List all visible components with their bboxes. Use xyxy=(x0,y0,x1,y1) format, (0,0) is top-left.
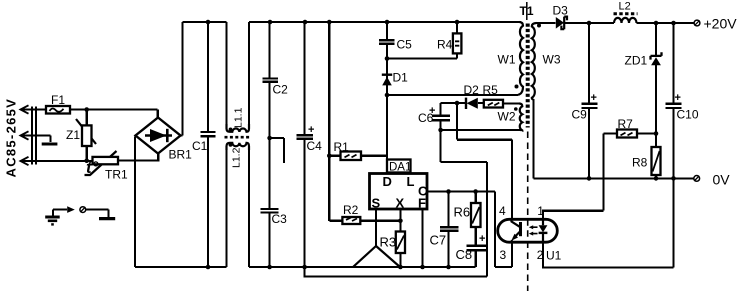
svg-text:1: 1 xyxy=(537,204,544,218)
svg-text:TR1: TR1 xyxy=(105,168,128,182)
svg-text:X: X xyxy=(396,196,405,211)
svg-text:AC85-265V: AC85-265V xyxy=(4,98,19,178)
svg-text:DA1: DA1 xyxy=(389,162,411,174)
svg-text:+: + xyxy=(479,233,485,245)
svg-text:R7: R7 xyxy=(618,117,634,131)
svg-text:ZD1: ZD1 xyxy=(625,54,648,68)
svg-text:F: F xyxy=(418,196,426,211)
svg-text:C5: C5 xyxy=(397,38,413,52)
svg-text:BR1: BR1 xyxy=(169,148,193,162)
svg-text:T1: T1 xyxy=(520,4,534,18)
svg-text:L2: L2 xyxy=(619,1,631,13)
svg-text:D2: D2 xyxy=(464,83,480,97)
svg-text:R8: R8 xyxy=(632,156,648,170)
svg-text:+20V: +20V xyxy=(704,16,738,32)
svg-text:L1.2: L1.2 xyxy=(231,147,243,168)
svg-text:W3: W3 xyxy=(543,53,561,67)
svg-text:R5: R5 xyxy=(483,83,499,97)
svg-text:D1: D1 xyxy=(393,71,409,85)
svg-text:3: 3 xyxy=(500,248,507,262)
svg-text:W2: W2 xyxy=(498,110,516,124)
svg-text:C4: C4 xyxy=(307,139,323,153)
svg-text:C7: C7 xyxy=(430,233,447,248)
svg-text:R3: R3 xyxy=(380,235,397,250)
svg-text:C2: C2 xyxy=(273,83,289,97)
svg-text:W1: W1 xyxy=(498,53,516,67)
svg-text:C1: C1 xyxy=(192,139,208,153)
svg-text:C8: C8 xyxy=(456,247,473,262)
svg-text:R6: R6 xyxy=(454,205,471,220)
svg-text:+: + xyxy=(308,124,314,136)
svg-text:4: 4 xyxy=(499,204,506,218)
svg-text:Z1: Z1 xyxy=(66,128,80,142)
svg-text:D3: D3 xyxy=(553,4,569,18)
svg-text:t°: t° xyxy=(86,158,99,177)
svg-text:C9: C9 xyxy=(572,108,588,122)
svg-text:2: 2 xyxy=(537,248,544,262)
svg-text:C10: C10 xyxy=(677,108,699,122)
svg-text:L1.1: L1.1 xyxy=(233,107,245,128)
svg-text:S: S xyxy=(372,196,381,211)
svg-text:+: + xyxy=(675,92,681,104)
svg-text:R4: R4 xyxy=(437,38,453,52)
svg-text:L: L xyxy=(407,174,415,189)
svg-text:U1: U1 xyxy=(546,249,562,263)
svg-text:D: D xyxy=(383,174,392,189)
svg-text:C3: C3 xyxy=(272,212,288,226)
svg-text:R1: R1 xyxy=(334,140,350,154)
svg-text:R2: R2 xyxy=(343,203,359,217)
svg-text:0V: 0V xyxy=(713,172,731,188)
svg-text:+: + xyxy=(591,92,597,104)
svg-text:+: + xyxy=(429,105,435,117)
svg-text:F1: F1 xyxy=(51,93,65,107)
